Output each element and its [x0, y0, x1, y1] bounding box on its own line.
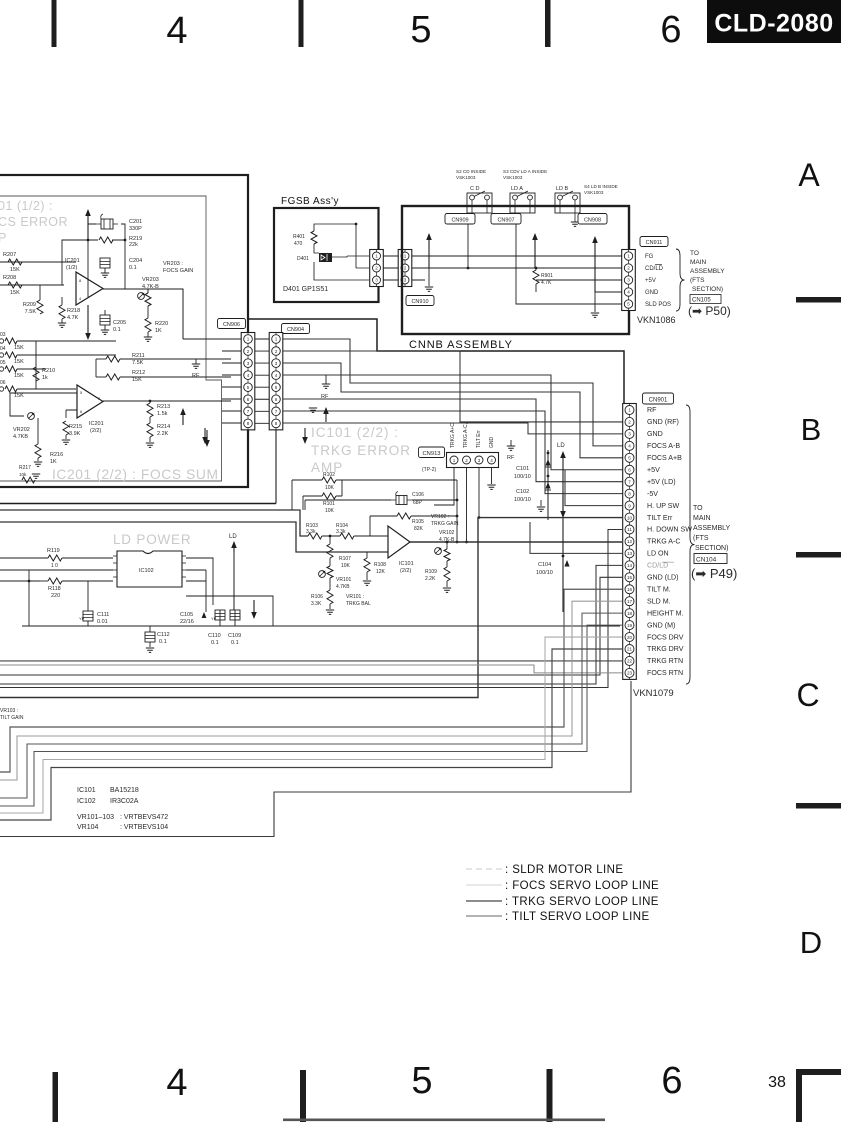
svg-text:1: 1 — [404, 254, 407, 259]
svg-text:10K: 10K — [341, 563, 351, 569]
svg-text:TRKG BAL: TRKG BAL — [346, 601, 371, 607]
label VR203 FOCS GAIN — [163, 261, 193, 274]
svg-text:7.5K: 7.5K — [25, 309, 37, 315]
wire LD POWER row2 — [0, 569, 113, 571]
svg-text:3: 3 — [275, 361, 278, 366]
svg-text:CN908: CN908 — [584, 217, 601, 223]
svg-text:ASSEMBLY: ASSEMBLY — [693, 525, 731, 532]
label CN901 — [643, 393, 674, 404]
switch S4 LD B — [555, 191, 580, 213]
svg-text:3: 3 — [247, 361, 250, 366]
svg-text:CN104: CN104 — [696, 557, 717, 564]
svg-text:C112: C112 — [157, 632, 170, 638]
svg-text:TO: TO — [693, 505, 703, 512]
svg-text:YP: YP — [79, 616, 85, 621]
svg-text:R215: R215 — [69, 424, 82, 430]
svg-text:R109: R109 — [425, 569, 437, 575]
svg-text:CNNB ASSEMBLY: CNNB ASSEMBLY — [409, 339, 513, 351]
svg-text:MAIN: MAIN — [690, 259, 707, 266]
svg-text:CN909: CN909 — [451, 217, 468, 223]
arrow CNNB up 2 — [532, 233, 538, 268]
svg-text:15K: 15K — [14, 359, 24, 365]
page number 38 — [768, 1074, 786, 1091]
svg-text:100/10: 100/10 — [536, 570, 553, 576]
svg-text:1 0: 1 0 — [51, 563, 58, 569]
svg-text:6: 6 — [628, 467, 631, 472]
label VR103 TILT GAIN — [0, 708, 24, 721]
svg-text:2: 2 — [628, 420, 631, 425]
photo-interrupter D401 — [297, 253, 332, 262]
watermark label LD POWER — [113, 532, 191, 547]
block outline FOCS amp inner box — [0, 196, 222, 481]
watermark label IC101 (2/2) TRKG ERROR AMP — [311, 425, 411, 475]
svg-text:CS ERROR: CS ERROR — [0, 215, 68, 229]
capacitor C101 — [514, 450, 551, 520]
svg-text:: VRTBEVS104: : VRTBEVS104 — [120, 824, 168, 831]
switch S4 labels — [556, 184, 618, 195]
svg-text:2: 2 — [404, 266, 407, 271]
wire TILT M — [0, 589, 622, 772]
corner crop mark bottom right — [796, 1069, 841, 1122]
svg-text:4: 4 — [628, 444, 631, 449]
svg-text:8: 8 — [275, 421, 278, 426]
label CN906 — [218, 319, 246, 329]
svg-text:VR101–103: VR101–103 — [77, 814, 114, 821]
svg-text:2: 2 — [627, 266, 630, 271]
svg-text:D401 GP1S51: D401 GP1S51 — [283, 286, 328, 293]
svg-text:CLD-2080: CLD-2080 — [714, 10, 833, 38]
svg-text:SLD M.: SLD M. — [647, 597, 671, 605]
svg-text:12K: 12K — [376, 569, 386, 575]
wire TRKG input A y510 — [0, 510, 308, 536]
arrow power up opamp2 — [180, 408, 186, 425]
ground RF near CN913 — [507, 440, 515, 461]
svg-text:0.1: 0.1 — [129, 265, 137, 271]
svg-text:R211: R211 — [132, 353, 145, 359]
ground R216 — [34, 458, 42, 466]
CN901 pin labels — [647, 406, 692, 677]
svg-text:LD: LD — [557, 443, 565, 449]
svg-text:18: 18 — [627, 611, 633, 616]
svg-text:17: 17 — [627, 599, 633, 604]
svg-text:R119: R119 — [47, 548, 60, 554]
svg-text:LD POWER: LD POWER — [113, 532, 191, 547]
svg-text:4: 4 — [627, 290, 630, 295]
svg-text:-5V: -5V — [647, 490, 658, 498]
svg-text:+5V: +5V — [647, 466, 660, 474]
ground R220 — [144, 332, 152, 341]
wire HEIGHT M — [0, 613, 622, 798]
svg-text:R101: R101 — [323, 501, 335, 507]
op-amp IC201 (1/2) — [65, 258, 103, 305]
page ruler ticks top — [52, 0, 551, 47]
svg-text:4.7K-B: 4.7K-B — [142, 284, 159, 290]
wire bus CN904-4 to pin6 — [283, 375, 624, 470]
svg-text:R217: R217 — [19, 465, 31, 471]
wire bus CN904-3 to pin5 — [283, 363, 624, 458]
svg-text:FOCS RTN: FOCS RTN — [647, 669, 683, 677]
svg-text:1: 1 — [628, 408, 631, 413]
wire TILT Err loop — [0, 518, 622, 698]
wire CN913 pin4 ground — [487, 468, 495, 489]
arrow power up opamp1 — [85, 209, 91, 240]
svg-text:1.5k: 1.5k — [157, 411, 168, 417]
wire FGSB internal — [314, 224, 369, 280]
svg-text:C205: C205 — [113, 320, 126, 326]
wire opamp2 output row — [103, 400, 231, 402]
resistor R105 — [370, 513, 457, 536]
pot VR101 — [319, 558, 352, 590]
switch S2 CD — [467, 191, 492, 213]
label LD — [557, 443, 565, 449]
svg-text:C111: C111 — [97, 612, 109, 618]
wire sum node vertical — [36, 341, 116, 389]
svg-text:CN910: CN910 — [411, 299, 428, 305]
svg-text:SECTION): SECTION) — [692, 286, 723, 293]
svg-text:FG: FG — [645, 254, 654, 260]
ground R106 — [326, 604, 334, 614]
svg-text:TRKG GAIN: TRKG GAIN — [431, 521, 459, 527]
svg-text:FGSB Ass'y: FGSB Ass'y — [281, 196, 339, 207]
svg-text:S4 LD B INSIDE: S4 LD B INSIDE — [584, 184, 618, 189]
capacitor C105 — [180, 606, 206, 625]
svg-text:R210: R210 — [42, 368, 55, 374]
svg-text:TILT GAIN: TILT GAIN — [0, 715, 24, 721]
svg-text:RF: RF — [647, 406, 657, 414]
svg-text:1: 1 — [453, 458, 456, 463]
svg-text:P: P — [0, 231, 7, 245]
svg-text:C101: C101 — [516, 466, 529, 472]
svg-text:VSK1003: VSK1003 — [503, 175, 523, 180]
svg-text:06: 06 — [0, 380, 6, 386]
svg-text:5: 5 — [411, 1060, 432, 1102]
svg-text:1: 1 — [627, 254, 630, 259]
svg-text:VKN1086: VKN1086 — [637, 315, 676, 325]
svg-text:ASSEMBLY: ASSEMBLY — [690, 268, 725, 275]
ground R108 — [363, 572, 371, 585]
svg-text:0.1: 0.1 — [231, 640, 239, 646]
svg-text:16: 16 — [627, 587, 633, 592]
label CN913 — [419, 447, 445, 473]
svg-text:TRKG DRV: TRKG DRV — [647, 645, 684, 653]
op-amp IC101 (2/2) — [388, 526, 414, 574]
wire RF heavy line to CN901 pin1 — [248, 319, 629, 410]
svg-text:GND: GND — [489, 437, 495, 449]
svg-text:10K: 10K — [325, 508, 335, 514]
wire LD ON — [530, 522, 622, 553]
wire GND row — [595, 291, 622, 293]
svg-text:470: 470 — [294, 241, 303, 247]
bottom edge strip — [283, 1119, 605, 1122]
svg-text:RF: RF — [321, 394, 329, 400]
svg-text:05: 05 — [0, 360, 6, 366]
svg-text:TILT M.: TILT M. — [647, 585, 671, 593]
wire FG row — [412, 255, 622, 257]
resistor R108 — [364, 552, 386, 575]
svg-text:15K: 15K — [10, 267, 20, 273]
svg-text:VR101: VR101 — [336, 577, 352, 583]
capacitor C104 — [536, 555, 570, 576]
wire CN909 down — [467, 224, 469, 268]
svg-text:R102: R102 — [323, 472, 335, 478]
label CN907 — [491, 214, 521, 225]
svg-text:A: A — [798, 157, 820, 193]
wire bus CN904-6 to pin7 — [283, 399, 624, 482]
svg-text:C: C — [796, 677, 819, 713]
svg-text:8: 8 — [628, 491, 631, 496]
ground R215 — [62, 435, 70, 444]
switch S3 labels — [503, 169, 547, 192]
wire opamp2 inputs — [56, 393, 77, 418]
legend FOCS SERVO LOOP LINE — [466, 880, 659, 892]
wire LD vertical — [560, 451, 566, 612]
resistor R208 — [3, 275, 22, 296]
svg-text:TRKG A+C: TRKG A+C — [450, 423, 456, 448]
wire LD POWER left verticals — [0, 570, 88, 626]
connector CN906 — [241, 333, 255, 430]
label CN910 — [406, 296, 434, 306]
arrow mid up — [323, 407, 329, 422]
label VKN1079 — [633, 688, 674, 699]
svg-text:4: 4 — [166, 10, 187, 52]
svg-text:7: 7 — [247, 409, 250, 414]
wire GND M — [0, 625, 622, 806]
resistor R215 — [63, 421, 82, 437]
svg-text:(TP-2): (TP-2) — [422, 467, 437, 473]
svg-text:BA15218: BA15218 — [110, 787, 139, 794]
svg-text:R209: R209 — [23, 302, 36, 308]
svg-text:IC102: IC102 — [139, 568, 154, 574]
svg-text:GND (RF): GND (RF) — [647, 418, 679, 426]
resistor R203 — [0, 332, 36, 351]
svg-text:R213: R213 — [157, 404, 170, 410]
svg-text:FOCS A+B: FOCS A+B — [647, 454, 682, 462]
svg-text:2: 2 — [465, 458, 468, 463]
ground C102 — [537, 500, 545, 511]
svg-text:B: B — [801, 412, 822, 447]
svg-text:R108: R108 — [374, 562, 386, 568]
svg-text:SECTION): SECTION) — [695, 545, 728, 552]
svg-text:VR101 :: VR101 : — [346, 594, 364, 600]
resistor R118 — [40, 578, 113, 599]
svg-text:R212: R212 — [132, 370, 145, 376]
wire C201 R219 junction — [88, 224, 125, 297]
svg-text:2: 2 — [275, 349, 278, 354]
label VR102 TRKG GAIN — [431, 514, 459, 527]
arrow LD POWER down — [251, 600, 257, 619]
svg-text:LD B: LD B — [556, 186, 569, 192]
svg-text:68P: 68P — [413, 500, 423, 506]
wire CN906-CN904 links — [255, 339, 269, 423]
svg-text:SLD POS: SLD POS — [645, 302, 671, 308]
capacitor C204 — [100, 258, 142, 271]
switch S3 LD A — [510, 191, 535, 213]
svg-text:IC101 (2/2) :: IC101 (2/2) : — [311, 425, 399, 440]
svg-text:S2 CD INSIDE: S2 CD INSIDE — [456, 169, 486, 174]
resistor R217 — [19, 465, 40, 483]
svg-text:3: 3 — [478, 458, 481, 463]
svg-text:15K: 15K — [10, 290, 20, 296]
legend SLDR MOTOR LINE — [466, 864, 623, 876]
svg-text:22k: 22k — [129, 242, 138, 248]
svg-text:4: 4 — [490, 458, 493, 463]
op-amp IC201 (2/2) — [77, 385, 104, 434]
wire CN913 pin3 to TILT line — [478, 468, 480, 518]
svg-text:CN911: CN911 — [646, 240, 663, 246]
svg-text:1: 1 — [247, 337, 250, 342]
svg-text:04: 04 — [0, 346, 6, 352]
svg-text:5: 5 — [410, 9, 431, 51]
note TO MAIN ASSEMBLY FTS CN104 — [691, 505, 737, 581]
svg-text:4.7KB: 4.7KB — [13, 434, 28, 440]
CN911 pin labels — [645, 254, 671, 308]
svg-text:R208: R208 — [3, 275, 16, 281]
svg-text:15K: 15K — [14, 345, 24, 351]
svg-text:TRKG ERROR: TRKG ERROR — [311, 443, 411, 458]
wire opamp1 feedback top — [62, 240, 125, 289]
switch S2 labels — [456, 169, 486, 192]
svg-text:H. DOWN SW: H. DOWN SW — [647, 526, 692, 534]
svg-text:10K: 10K — [325, 485, 335, 491]
svg-text:330P: 330P — [129, 226, 142, 232]
svg-text:IC201 (2/2) : FOCS SUM: IC201 (2/2) : FOCS SUM — [52, 467, 219, 482]
svg-text:VSK1003: VSK1003 — [456, 175, 476, 180]
svg-text:CN901: CN901 — [649, 397, 668, 403]
svg-text:: VRTBEVS472: : VRTBEVS472 — [120, 814, 168, 821]
label LD ldpower — [229, 534, 237, 610]
svg-text:+5V (LD): +5V (LD) — [647, 478, 676, 486]
svg-text:(2/2): (2/2) — [400, 568, 411, 574]
wire CD/LD to pin14 — [0, 565, 622, 684]
svg-text:: TILT SERVO LOOP LINE: : TILT SERVO LOOP LINE — [505, 911, 650, 923]
wire LD POWER bottom bus — [22, 625, 620, 627]
wire VR203 output to CN906 pin1 — [183, 338, 231, 340]
resistor R219 — [99, 236, 142, 248]
resistor R109 — [425, 561, 450, 582]
resistor R220 — [145, 318, 168, 334]
FGSB assembly title — [281, 196, 339, 207]
svg-text:100/10: 100/10 — [514, 497, 531, 503]
svg-text:R216: R216 — [50, 452, 63, 458]
watermark label IC201 (2/2) FOCS SUM — [52, 467, 219, 482]
wire H.DOWN SW — [0, 530, 622, 688]
svg-text:GND: GND — [645, 290, 659, 296]
svg-text:D401: D401 — [297, 256, 309, 262]
svg-text:CN105: CN105 — [692, 298, 711, 304]
svg-text:2: 2 — [375, 266, 378, 271]
svg-text:(FTS: (FTS — [690, 277, 705, 284]
svg-text:VR102 :: VR102 : — [431, 514, 449, 520]
svg-text:15K: 15K — [14, 393, 24, 399]
svg-text:23: 23 — [627, 671, 633, 676]
wire CN906 stubs left — [222, 339, 241, 423]
arrow mid down — [302, 428, 308, 444]
svg-text:CN913: CN913 — [422, 451, 440, 457]
grid column numbers top — [166, 9, 681, 52]
svg-text:22: 22 — [627, 659, 633, 664]
connector CN911 — [622, 250, 636, 311]
resistor R212 — [96, 370, 145, 383]
ground R109 — [443, 581, 451, 592]
ground C204 — [101, 268, 109, 277]
wire bus CN904-1 to pin4 — [283, 339, 624, 446]
capacitor C205 — [100, 310, 126, 333]
grid row letters — [796, 157, 822, 960]
capacitor C201 — [96, 214, 142, 232]
svg-text:CN907: CN907 — [497, 217, 514, 223]
svg-text:R901: R901 — [541, 273, 553, 279]
capacitor C111 — [79, 611, 109, 625]
svg-text:4.7K: 4.7K — [67, 315, 79, 321]
svg-text:3.3k: 3.3k — [306, 529, 316, 535]
wire CN913 pin1 — [434, 468, 454, 505]
svg-text:C106: C106 — [412, 492, 424, 498]
svg-text:15K: 15K — [132, 377, 142, 383]
wire R207 input row — [0, 261, 76, 263]
svg-text:4: 4 — [247, 373, 250, 378]
svg-text:C102: C102 — [516, 489, 529, 495]
arrow C column down — [560, 495, 566, 518]
svg-text:C105: C105 — [180, 612, 193, 618]
svg-text:VR104: VR104 — [77, 824, 99, 831]
svg-text:GND (M): GND (M) — [647, 621, 675, 629]
resistor R107 — [327, 536, 351, 569]
svg-text:IC101: IC101 — [77, 787, 96, 794]
wire GND LD to pin15 — [0, 577, 622, 675]
pot VR203 — [138, 277, 160, 318]
svg-text:LD A: LD A — [511, 186, 523, 192]
svg-text:R118: R118 — [48, 586, 61, 592]
svg-text:R105: R105 — [412, 519, 424, 525]
watermark label IC201 (1/2) FOCS ERROR AMP — [0, 199, 68, 245]
svg-text:15K: 15K — [14, 373, 24, 379]
resistor R207 — [3, 252, 22, 273]
svg-text:10: 10 — [627, 515, 633, 520]
svg-text:(2/2): (2/2) — [90, 428, 101, 434]
ground RF mid — [321, 375, 330, 400]
svg-text:01 (1/2) :: 01 (1/2) : — [0, 199, 53, 213]
svg-text:3: 3 — [627, 278, 630, 283]
resistor R204 — [0, 346, 36, 365]
svg-text:FOCS DRV: FOCS DRV — [647, 633, 684, 641]
connector CN904 — [269, 333, 283, 430]
FGSB assembly box — [274, 208, 379, 302]
svg-text:H. UP SW: H. UP SW — [647, 502, 679, 510]
svg-text:R214: R214 — [157, 424, 170, 430]
wire IC101 output TRKG A-C — [410, 541, 622, 543]
svg-text:VR203 :: VR203 : — [163, 261, 183, 267]
resistor R210 — [33, 367, 55, 381]
svg-text:1: 1 — [275, 337, 278, 342]
capacitor C110 — [208, 610, 225, 646]
wire bus CN904-2 to pin2 — [283, 351, 624, 422]
svg-text:2.2K: 2.2K — [425, 576, 436, 582]
connector FGSB output 3pin — [370, 250, 384, 287]
svg-text:100/10: 100/10 — [514, 474, 531, 480]
connector CN910 3pin — [398, 250, 412, 287]
ground R218 — [58, 319, 66, 327]
svg-text:5: 5 — [275, 385, 278, 390]
wire CN904 pin8 down to box edge — [275, 430, 277, 504]
wire IC102 outputs right — [186, 558, 273, 626]
note TO MAIN ASSEMBLY FTS CN105 — [688, 250, 731, 318]
svg-text:D: D — [800, 925, 822, 960]
wire SLD M — [0, 601, 622, 780]
svg-text:YP: YP — [211, 616, 217, 621]
svg-text:: TRKG SERVO LOOP LINE: : TRKG SERVO LOOP LINE — [505, 896, 659, 908]
wire H.UP SW stub — [565, 470, 622, 506]
svg-text:6: 6 — [247, 397, 250, 402]
